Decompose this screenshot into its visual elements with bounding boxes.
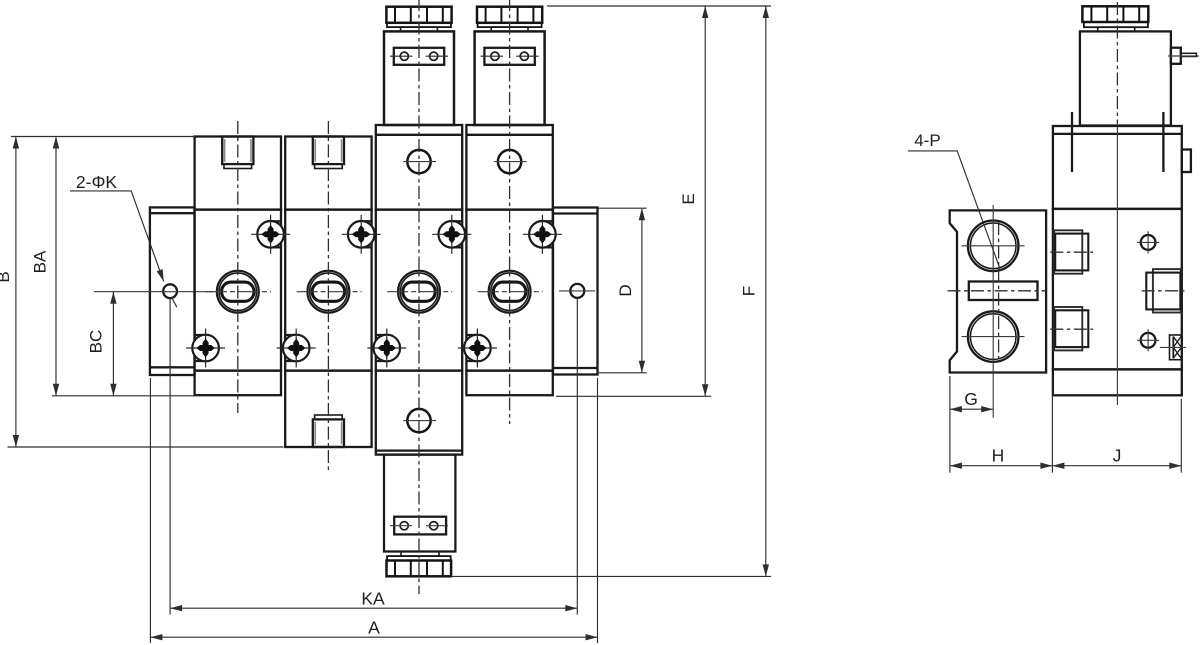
D bottom extension line: [598, 372, 646, 374]
station 2 oval port: [307, 271, 349, 313]
left end plate mounting hole 2-ΦK: [163, 284, 177, 298]
dimension E: [679, 6, 705, 396]
station 3 lower adapter circle: [403, 409, 436, 432]
station 2 bottom fitting (mirrored): [313, 415, 344, 447]
station 1 top-right phillips screw: [251, 215, 290, 254]
2-ΦK leader line: [70, 191, 177, 307]
side solenoid cap strip: [1084, 22, 1148, 27]
station 1 top block: [195, 137, 281, 210]
manifold block lower port circle: [962, 311, 1025, 362]
right end plate hole: [570, 284, 584, 298]
dimension BA: [31, 137, 57, 396]
left port boss lower: [1050, 307, 1093, 350]
station 4 top-right phillips screw: [523, 215, 562, 254]
bottom solenoid cap strip: [387, 556, 451, 560]
dimension BC: [87, 292, 114, 396]
side body mid vertical line: [1116, 126, 1118, 406]
station 2 port centerline: [297, 291, 362, 293]
dimension KA: [170, 589, 577, 609]
exhaust check valve symbol: [1160, 335, 1186, 360]
KA left extension line: [169, 299, 171, 615]
station 2 top-right screw pocket: [361, 221, 371, 247]
station 3 lower adapter block: [376, 371, 462, 455]
station 1 bottom-left screw pocket: [195, 335, 206, 361]
left end plate: [150, 207, 195, 375]
station 3 bottom-left phillips screw: [367, 329, 406, 368]
station 3 port centerline: [387, 291, 452, 293]
station 3 vertical centerline: [418, 0, 420, 594]
svg-text:D: D: [616, 284, 635, 296]
BA bottom extension line: [52, 395, 195, 397]
B bottom extension line: [8, 446, 284, 448]
station 4 oval port: [489, 271, 531, 313]
D top extension line: [598, 207, 646, 209]
station 1 valve body: [195, 210, 281, 371]
station 4 adapter circle: [494, 150, 527, 173]
station 3 bottom solenoid coil: [384, 455, 455, 552]
station 4 top adapter block: [466, 125, 552, 210]
station 4 vertical centerline: [509, 0, 511, 424]
dimension A: [150, 618, 597, 638]
side body main: [1053, 209, 1182, 370]
side solenoid connector: [1168, 48, 1199, 64]
H/J middle extension line: [1051, 376, 1053, 473]
manifold block vertical hole line (G reference): [992, 205, 994, 418]
J right extension line: [1180, 399, 1182, 473]
dimension G: [950, 389, 993, 409]
station 2 valve body: [285, 210, 371, 371]
station 2 bottom-left screw pocket: [285, 335, 296, 361]
right port boss: [1142, 269, 1185, 312]
bottom solenoid collar: [401, 552, 439, 557]
side solenoid vertical centerline: [1116, 2, 1118, 124]
station 3 valve body: [376, 210, 462, 371]
station 4 top-right screw pocket: [542, 221, 552, 247]
station 1 top fitting: [222, 137, 253, 169]
station 4 bottom-left phillips screw: [458, 329, 497, 368]
station 3 top adapter block: [376, 125, 462, 210]
station 4 bottom-left screw pocket: [466, 335, 477, 361]
dimension D: [616, 208, 642, 373]
station 2 top fitting: [313, 137, 344, 169]
right end plate: [553, 208, 598, 375]
manifold block upper port circle: [962, 221, 1025, 272]
svg-text:G: G: [964, 389, 978, 409]
manifold block outline: [950, 210, 1046, 372]
station 3 bottom-left screw pocket: [376, 335, 387, 361]
A left extension line: [149, 378, 151, 643]
manifold block vertical dash-dot centerline: [998, 222, 1000, 362]
station 3 top-right phillips screw: [432, 215, 471, 254]
side body base: [1053, 369, 1182, 395]
svg-text:B: B: [0, 271, 13, 282]
bottom solenoid mounting plate: [390, 517, 448, 535]
svg-text:BA: BA: [31, 250, 50, 273]
svg-text:2-ΦK: 2-ΦK: [76, 172, 118, 192]
dimension F: [740, 6, 766, 576]
manifold block horizontal centerline: [948, 290, 1047, 292]
station 4 valve body: [466, 210, 552, 371]
side solenoid coil: [1080, 31, 1171, 125]
bottom solenoid knurled cap: [387, 561, 452, 577]
station 4 top solenoid: [475, 7, 545, 125]
station 1 oval port: [217, 271, 259, 313]
svg-text:A: A: [368, 618, 380, 638]
station 2 top-right phillips screw: [342, 215, 381, 254]
manifold block slot: [969, 282, 1038, 301]
svg-text:BC: BC: [87, 330, 106, 354]
dimension B: [0, 137, 16, 448]
svg-text:J: J: [1113, 446, 1122, 466]
top extension line (B/BA): [11, 136, 195, 138]
station 4 port centerline: [478, 291, 543, 293]
4-P leader line: [908, 151, 1001, 271]
station 1 port centerline: [206, 291, 271, 293]
dimension H: [950, 446, 1053, 466]
station 1 foot: [195, 371, 281, 396]
hole horizontal centerline: [94, 291, 213, 293]
right hole horizontal centerline: [559, 290, 595, 292]
A right extension line: [597, 378, 599, 643]
E bottom extension line: [556, 395, 711, 397]
side body right tab: [1182, 150, 1191, 173]
top extension line (E/F): [547, 5, 771, 7]
side screw upper: [1137, 231, 1159, 253]
station 1 vertical centerline: [237, 121, 239, 413]
side solenoid neck: [1098, 27, 1135, 31]
side screw lower: [1137, 329, 1159, 351]
svg-text:4-P: 4-P: [914, 131, 940, 150]
dimension J: [1052, 446, 1181, 466]
svg-text:F: F: [740, 286, 759, 296]
side body upper block: [1053, 112, 1182, 209]
station 1 top-right screw pocket: [271, 221, 281, 247]
station 2 lower block: [285, 371, 371, 447]
station 2 vertical centerline: [327, 121, 329, 472]
station 2 top block: [285, 137, 371, 210]
station 3 top-right screw pocket: [452, 221, 462, 247]
F bottom extension line: [451, 575, 771, 577]
svg-text:E: E: [679, 193, 698, 204]
G left extension line: [949, 376, 951, 473]
svg-text:KA: KA: [361, 589, 385, 609]
left port boss upper: [1050, 230, 1093, 273]
KA right extension line: [576, 299, 578, 615]
svg-text:H: H: [992, 446, 1005, 466]
station 2 bottom-left phillips screw: [277, 329, 316, 368]
side solenoid knurled cap: [1082, 6, 1148, 22]
station 3 top solenoid: [384, 7, 454, 125]
station 3 adapter circle: [403, 150, 436, 173]
station 3 oval port: [398, 271, 440, 313]
station 1 bottom-left phillips screw: [186, 329, 225, 368]
station 4 foot: [466, 371, 552, 396]
